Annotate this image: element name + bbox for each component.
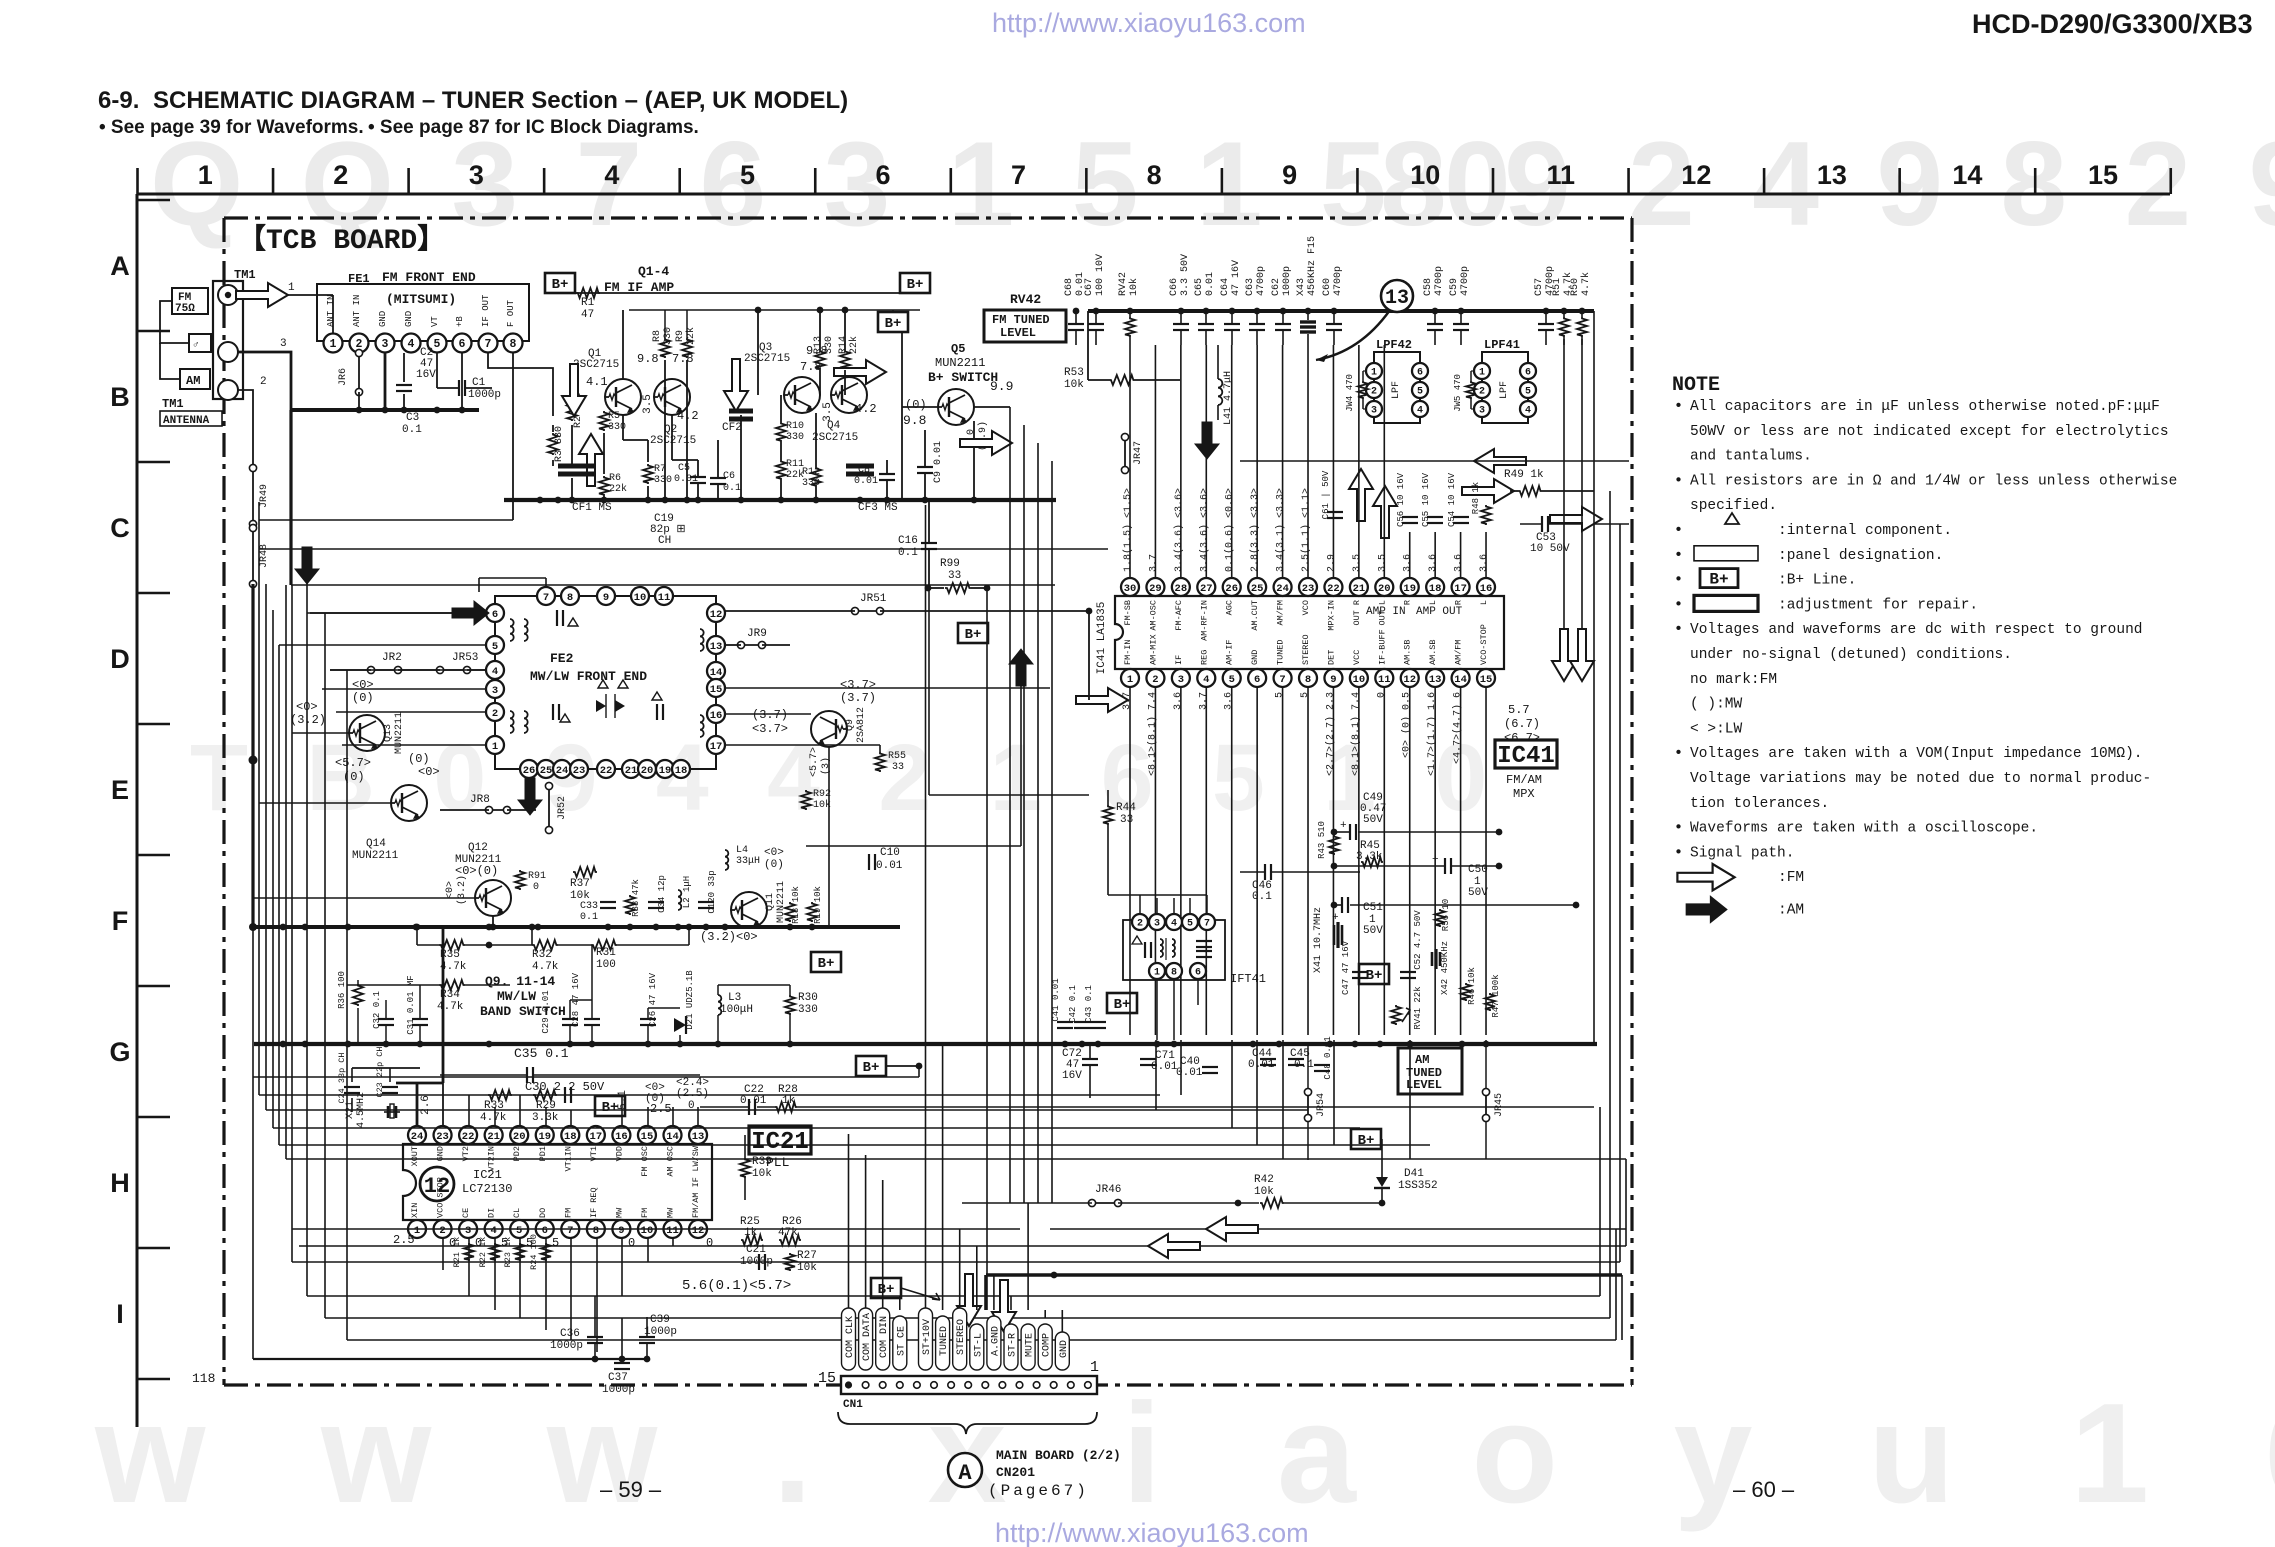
svg-text:5: 5: [1229, 674, 1235, 686]
svg-text:12: 12: [1403, 674, 1416, 686]
svg-text:(3): (3): [820, 757, 832, 775]
svg-text:(3.2)<0>: (3.2)<0>: [700, 930, 758, 944]
svg-text:B+: B+: [1114, 997, 1131, 1013]
IC21 pin 6: [536, 1220, 554, 1238]
wire CN1 drop 2: [882, 1180, 884, 1310]
wire IC41 pin 30 riser: [1129, 345, 1131, 578]
svg-text:0.01: 0.01: [1176, 1067, 1203, 1079]
IC41 pin 11: [1375, 669, 1393, 687]
capacitor C55: [1427, 516, 1443, 518]
svg-text:ANT IN: ANT IN: [326, 295, 336, 327]
svg-text:•: •: [1674, 398, 1683, 415]
IC21 pin 24: [408, 1126, 426, 1144]
svg-text:R31: R31: [596, 947, 616, 959]
ruler tick 7: [1085, 168, 1088, 194]
riser IC21 top pin: [621, 1095, 623, 1126]
svg-text:<0> (0) 0.5: <0> (0) 0.5: [1401, 692, 1413, 758]
svg-text:•: •: [1674, 596, 1683, 613]
wire long h8: [292, 1228, 1020, 1230]
svg-text:C10: C10: [880, 847, 900, 859]
IC21 pin 15: [638, 1126, 656, 1144]
IC41 pin 3: [1172, 669, 1190, 687]
svg-text:FM/AM: FM/AM: [1506, 773, 1542, 787]
svg-text:L4: L4: [736, 845, 748, 856]
reference circle 12: [420, 1167, 454, 1201]
reference circle 13: [1381, 280, 1413, 312]
svg-text:ST CE: ST CE: [896, 1326, 907, 1356]
svg-text:10: 10: [634, 592, 647, 604]
svg-text:X41 10.7MHz: X41 10.7MHz: [1313, 907, 1324, 973]
IC21 pin 21: [485, 1126, 503, 1144]
svg-text:18: 18: [564, 1131, 577, 1143]
drop IC21 bottom pin: [570, 1238, 572, 1340]
svg-text:0.1: 0.1: [1294, 1059, 1314, 1071]
svg-text:19: 19: [659, 765, 672, 777]
signal arrow FM down cn1a: [957, 1274, 981, 1326]
svg-text:23: 23: [573, 765, 586, 777]
svg-text:JR6: JR6: [338, 368, 349, 386]
inductor L2: [678, 890, 681, 910]
svg-text:RV42: RV42: [1118, 272, 1129, 296]
wire row y520: [259, 519, 513, 521]
signal arrow FM left low2: [1148, 1234, 1200, 1258]
svg-text:2SC2715: 2SC2715: [650, 435, 696, 447]
svg-text:20: 20: [1378, 583, 1391, 595]
svg-text:3: 3: [1371, 406, 1377, 417]
CN1 pin 1: [1085, 1382, 1092, 1389]
wire Q9 emitter drop: [828, 747, 830, 927]
IC21 pin 3: [459, 1220, 477, 1238]
wire FE2 right pin12: [724, 611, 726, 613]
svg-text:6: 6: [1254, 674, 1260, 686]
wire IC41 pin 12 drop: [1409, 687, 1411, 1035]
capacitor C6: [710, 477, 726, 479]
svg-text:G: G: [109, 1037, 130, 1067]
svg-text:L: L: [1428, 600, 1438, 605]
svg-text:COM DATA: COM DATA: [862, 1313, 873, 1361]
svg-text:DI: DI: [487, 1208, 497, 1218]
wires Q3 stage: [757, 310, 759, 395]
svg-text:5: 5: [492, 641, 498, 653]
capacitor C56: [1402, 516, 1418, 518]
ruler tick 5: [814, 168, 817, 194]
FE2 internal diodes: [596, 700, 606, 712]
IC21 pin 4: [485, 1220, 503, 1238]
svg-text:X42 450KHz: X42 450KHz: [1440, 941, 1450, 995]
IC21 pin 19: [536, 1126, 554, 1144]
FE2 internal coil4: [700, 715, 704, 737]
svg-text:21: 21: [487, 1131, 500, 1143]
svg-text:5.1: 5.1: [617, 1090, 629, 1110]
svg-text:19: 19: [538, 1131, 551, 1143]
svg-text:JR9: JR9: [747, 628, 767, 640]
svg-text:TM1: TM1: [162, 397, 184, 411]
IC21 pin 11: [664, 1220, 682, 1238]
svg-text:4.1: 4.1: [586, 375, 608, 389]
svg-text:6: 6: [459, 338, 466, 351]
jumper JR54: [1307, 1044, 1309, 1092]
IC41 pin 12: [1401, 669, 1419, 687]
IC41 pin 17: [1452, 578, 1470, 596]
wire FE2 pin17 to R55: [725, 744, 880, 746]
FE2 pin 15: [707, 679, 725, 697]
IFT41 pin 1: [1149, 963, 1165, 979]
svg-text:11: 11: [1378, 674, 1391, 686]
svg-text:LEVEL: LEVEL: [1000, 326, 1036, 340]
riser IC21 top pin: [468, 1095, 470, 1126]
signal arrow FM right q3: [834, 360, 886, 384]
svg-text:0: 0: [1376, 692, 1387, 698]
svg-text:C: C: [110, 513, 130, 543]
wire IC41 pin 6 drop: [1256, 687, 1258, 1035]
svg-text:B+: B+: [878, 1282, 895, 1298]
drop IC21 bottom pin: [596, 1238, 598, 1352]
svg-text:10k: 10k: [1064, 379, 1084, 391]
svg-text:3: 3: [465, 1225, 471, 1237]
svg-text:5.7: 5.7: [1508, 703, 1530, 717]
svg-text:C51: C51: [1363, 902, 1383, 914]
svg-text:• See page 39 for Waveforms.: • See page 39 for Waveforms.: [99, 117, 364, 138]
svg-text:22: 22: [1327, 583, 1340, 595]
wire IC41 pin 21 riser: [1358, 345, 1360, 578]
svg-text:B+ SWITCH: B+ SWITCH: [928, 370, 998, 385]
jumper JR47: [1124, 437, 1126, 470]
svg-text:C61 | 50V: C61 | 50V: [1321, 470, 1331, 519]
diode D41: [1376, 1177, 1388, 1187]
wire FE1 pin1 riser: [332, 295, 334, 333]
wire Q14 base stub: [259, 802, 391, 804]
svg-text:CF2: CF2: [722, 422, 742, 434]
wire IC41 pin 19 riser: [1409, 532, 1411, 578]
svg-text:33: 33: [1120, 814, 1133, 826]
IC41 pin 5: [1223, 669, 1241, 687]
power B+ box left lower: [856, 1056, 886, 1076]
power B+ box c41: [1107, 993, 1137, 1013]
FE2 pin 20: [638, 760, 656, 778]
resistor R10: [776, 422, 786, 442]
svg-text:( ):MW: ( ):MW: [1690, 697, 1743, 713]
wire long h13: [347, 1339, 1616, 1341]
svg-text:27: 27: [1200, 583, 1213, 595]
svg-text:RV42: RV42: [1010, 292, 1041, 307]
svg-text:C33: C33: [580, 901, 598, 912]
svg-text:Q12: Q12: [468, 842, 488, 854]
wire IC41 pin 4 drop: [1205, 687, 1207, 1035]
svg-text:MW: MW: [666, 1207, 676, 1218]
svg-text:C9 0.01: C9 0.01: [933, 441, 944, 483]
jumper JR53: [440, 669, 467, 671]
wire CN1 drop 12: [1061, 1310, 1063, 1340]
FE2 pin 17: [707, 736, 725, 754]
svg-text:VCO-STOP: VCO-STOP: [1479, 624, 1489, 665]
svg-text:3.3k: 3.3k: [1356, 851, 1383, 863]
svg-text:MUN2211: MUN2211: [935, 356, 985, 370]
svg-text:C29 0.01: C29 0.01: [541, 990, 551, 1033]
resistor R46: [1461, 983, 1471, 1001]
transformer IFT41 box: [1123, 920, 1225, 980]
svg-text:C55 10 16V: C55 10 16V: [1421, 472, 1431, 527]
resistor R2: [567, 399, 577, 421]
IFT41 pin 5: [1182, 914, 1198, 930]
transistor Q9: [811, 711, 847, 747]
signal arrow FM right c53: [1550, 507, 1602, 531]
CN1 signal label ST-L: [970, 1324, 984, 1370]
ruler tick 2: [407, 168, 410, 194]
wire left vertical 8: [306, 582, 308, 1296]
wire right vertical 2: [1609, 491, 1611, 1203]
IC41 pin 15: [1477, 669, 1495, 687]
IC41 pin 24: [1274, 578, 1292, 596]
IC21 pin 2: [434, 1220, 452, 1238]
wire long h9: [299, 1245, 1626, 1247]
riser IC21 top pin: [697, 1107, 699, 1126]
svg-text:XIN: XIN: [410, 1203, 420, 1218]
svg-text:2SC2715: 2SC2715: [744, 353, 790, 365]
capacitor C37: [621, 1318, 623, 1362]
svg-text:3.6: 3.6: [1479, 554, 1490, 572]
svg-text:ST-R: ST-R: [1008, 1333, 1019, 1357]
svg-text:2: 2: [1479, 387, 1485, 398]
svg-text:AM/FM: AM/FM: [1276, 600, 1286, 626]
svg-text:4700p: 4700p: [1460, 266, 1471, 296]
svg-text:B+: B+: [602, 1100, 619, 1116]
svg-text:B+: B+: [1709, 571, 1728, 589]
wire IC41 pin 27 riser: [1205, 345, 1207, 578]
svg-text:8: 8: [567, 592, 573, 604]
svg-text:1: 1: [1154, 968, 1160, 979]
transistor Q14: [391, 785, 427, 821]
FE2 internal coil3: [700, 629, 704, 651]
svg-text:8: 8: [1147, 160, 1162, 190]
svg-text:LPF: LPF: [1391, 381, 1402, 399]
svg-text:C65: C65: [1194, 278, 1205, 296]
svg-text:COM DIN: COM DIN: [879, 1316, 890, 1358]
wire CN1 drop 11: [1044, 1310, 1046, 1318]
ruler tick 0: [136, 168, 139, 194]
svg-text:R48 1k: R48 1k: [1471, 482, 1481, 514]
svg-text:<3.7>: <3.7>: [752, 722, 788, 736]
svg-text:5: 5: [1417, 387, 1423, 398]
svg-text:<8.1>(8.1) 7.4: <8.1>(8.1) 7.4: [1146, 692, 1158, 776]
svg-text:3.5: 3.5: [822, 402, 834, 422]
IC41 pin 23: [1299, 578, 1317, 596]
svg-text:11: 11: [1547, 160, 1576, 190]
svg-text:13: 13: [710, 641, 723, 653]
svg-text:0.01: 0.01: [1151, 1061, 1178, 1073]
svg-text:R24 100: R24 100: [529, 1234, 539, 1270]
svg-text:AM.SB: AM.SB: [1428, 639, 1438, 665]
svg-text:21: 21: [625, 765, 638, 777]
svg-text:1: 1: [330, 338, 337, 351]
wire left vertical 10: [346, 670, 348, 1340]
capacitor C40: [1202, 1066, 1218, 1068]
wire FE1 pin3 down: [384, 353, 387, 410]
svg-text:2: 2: [439, 1225, 445, 1237]
svg-text:(3.7): (3.7): [752, 708, 788, 722]
FE2 internal coil1: [510, 619, 514, 641]
svg-text:C42 0.1: C42 0.1: [1068, 985, 1078, 1023]
wire collector rail y310: [629, 309, 920, 311]
resistor R29: [533, 1090, 557, 1100]
svg-text:C3: C3: [406, 412, 419, 424]
svg-text:C67: C67: [1084, 278, 1095, 296]
svg-text:R55: R55: [888, 751, 906, 762]
wire row y549: [259, 548, 1108, 550]
svg-text:3.6: 3.6: [1403, 554, 1414, 572]
resistor R39: [740, 1158, 750, 1178]
svg-text:0: 0: [706, 1236, 713, 1250]
svg-text:•: •: [1674, 522, 1683, 539]
svg-text:17: 17: [590, 1131, 603, 1143]
thick bus FE1 bottom: [292, 408, 479, 412]
FE2 pin 4: [486, 661, 504, 679]
svg-text:7: 7: [1011, 160, 1026, 190]
wire IC41 pin 10 drop: [1358, 687, 1360, 1035]
inductor L41: [1218, 379, 1222, 405]
svg-text:specified.: specified.: [1690, 498, 1777, 514]
wire IC41 pin 11 drop: [1383, 687, 1385, 1035]
svg-text:R27: R27: [797, 1250, 817, 1262]
svg-text:9: 9: [1282, 160, 1297, 190]
svg-text:0.1: 0.1: [580, 912, 598, 923]
FE1 pin 3: [376, 334, 395, 353]
ruler tick 4: [678, 168, 681, 194]
svg-text:AMP IN: AMP IN: [1366, 606, 1406, 618]
svg-text:15: 15: [1480, 674, 1493, 686]
resistor R26: [779, 1235, 801, 1245]
capacitor C9: [917, 466, 933, 468]
svg-text:<4.7>(4.7) 6: <4.7>(4.7) 6: [1452, 692, 1464, 764]
ceramic filter CF3: [846, 464, 874, 469]
svg-text:9: 9: [603, 592, 609, 604]
svg-text:C64: C64: [1220, 278, 1231, 296]
svg-text:CN1: CN1: [843, 1399, 863, 1411]
FE2 pin 10: [631, 587, 649, 605]
svg-text:7: 7: [543, 592, 549, 604]
ruler tick 14: [2034, 168, 2037, 194]
svg-text:8: 8: [1305, 674, 1311, 686]
IC IC41 LA1835 body: [1115, 596, 1504, 669]
svg-text:B+: B+: [965, 627, 982, 643]
wire row y461 right: [1240, 460, 1629, 462]
riser IC21 top pin: [647, 1107, 649, 1126]
svg-text:ST+10V: ST+10V: [922, 1319, 933, 1355]
svg-text:HCD-D290/G3300/XB3: HCD-D290/G3300/XB3: [1972, 9, 2253, 39]
svg-text:IF REQ: IF REQ: [589, 1187, 599, 1218]
IC41 pin 8: [1299, 669, 1317, 687]
svg-text:C52 4.7 50V: C52 4.7 50V: [1413, 910, 1423, 970]
FE2 pin 12: [707, 604, 725, 622]
drop IC21 bottom pin: [519, 1238, 521, 1318]
CN1 signal label COM DATA: [859, 1308, 873, 1370]
wire antenna boxes: [160, 301, 189, 343]
FE2 pin 1: [486, 736, 504, 754]
power B+ box ift: [1359, 964, 1389, 984]
svg-text:9: 9: [618, 1225, 624, 1237]
IC41 pin 25: [1248, 578, 1266, 596]
svg-text:L: L: [1479, 600, 1489, 605]
svg-text::panel designation.: :panel designation.: [1778, 548, 1943, 564]
signal arrow FM down cn1b: [992, 1280, 1016, 1332]
capacitor C31: [412, 1018, 428, 1020]
thick wire lower: [986, 1273, 1622, 1277]
svg-text:•: •: [1674, 844, 1683, 861]
svg-text:456KHz F15: 456KHz F15: [1307, 236, 1318, 296]
svg-text:STEREO: STEREO: [1301, 634, 1311, 665]
drop IC21 bottom pin: [494, 1238, 496, 1310]
svg-text:CL: CL: [512, 1208, 522, 1218]
wire CN1 drop 5: [942, 1044, 944, 1310]
wire IC41 pin 26 riser: [1231, 345, 1233, 578]
svg-text:33: 33: [892, 762, 904, 773]
svg-text:GND: GND: [404, 311, 414, 327]
IC41 pin 20: [1375, 578, 1393, 596]
wire IC41 pin 14 drop: [1460, 687, 1462, 1035]
svg-text:2SC2715: 2SC2715: [573, 359, 619, 371]
FE1 pin 7: [479, 334, 498, 353]
jumper JR52: [548, 786, 550, 830]
CN1 pin 11: [914, 1382, 921, 1389]
svg-text:C66: C66: [1169, 278, 1180, 296]
svg-text:24: 24: [1276, 583, 1289, 595]
IC21 pin 9: [612, 1220, 630, 1238]
riser IC21 top pin: [545, 1107, 547, 1126]
svg-text:TUNED: TUNED: [1276, 639, 1286, 665]
svg-text:C16: C16: [898, 535, 918, 547]
svg-text:1: 1: [198, 160, 213, 190]
svg-text:<0>: <0>: [418, 765, 440, 779]
svg-text:•: •: [1674, 820, 1683, 837]
svg-text:JR48: JR48: [259, 544, 270, 568]
capacitor C39: [646, 1317, 648, 1336]
capacitor C10: [868, 854, 870, 870]
IC41 pin 30: [1121, 578, 1139, 596]
left ruler tick 6: [137, 985, 170, 988]
wire CN1 drop 1: [865, 1155, 867, 1310]
IC41 pin 26: [1223, 578, 1241, 596]
svg-text:R18 10k: R18 10k: [791, 886, 801, 924]
svg-text:15: 15: [2088, 160, 2118, 190]
drop IC21 bottom pin: [697, 1237, 699, 1239]
CN1 signal label ST CE: [893, 1316, 907, 1370]
svg-text:B+: B+: [552, 277, 569, 293]
CN1 pin 4: [1033, 1382, 1040, 1389]
svg-text:9.8: 9.8: [637, 352, 659, 366]
resistor R27: [785, 1253, 795, 1271]
svg-text:ST-L: ST-L: [973, 1333, 984, 1357]
svg-text:<2.7>(2.7) 2.3: <2.7>(2.7) 2.3: [1324, 692, 1336, 776]
svg-text:2: 2: [492, 708, 498, 720]
jumper JR2: [371, 669, 398, 671]
svg-text:MW/LW: MW/LW: [497, 989, 536, 1004]
wire left vertical 6: [285, 585, 287, 1159]
svg-text:B+: B+: [818, 956, 835, 972]
jumper JR9: [741, 644, 762, 646]
wire R99 left column: [928, 588, 930, 795]
wire CN1 drop 0: [848, 1134, 850, 1310]
CN1 signal label GND: [1055, 1332, 1069, 1370]
resistor R34: [439, 980, 465, 990]
wire IC41 pin 3 drop: [1180, 687, 1182, 1035]
signal arrow FM in: [236, 283, 288, 307]
IFT41 internals: [1132, 936, 1142, 944]
svg-text:R1: R1: [581, 297, 595, 309]
svg-text:ANT IN: ANT IN: [352, 295, 362, 327]
svg-text:3.4(3.6) <3.6>: 3.4(3.6) <3.6>: [1173, 488, 1185, 572]
label IC21 box: [749, 1126, 811, 1154]
TM1 pin 2: [218, 380, 238, 400]
resistor R3: [548, 433, 558, 455]
